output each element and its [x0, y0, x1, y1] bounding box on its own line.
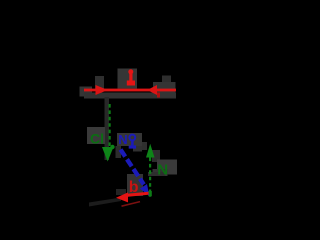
svg-text:Cl: Cl — [90, 131, 104, 147]
svg-text:N: N — [118, 132, 127, 147]
svg-text:N: N — [157, 162, 168, 179]
